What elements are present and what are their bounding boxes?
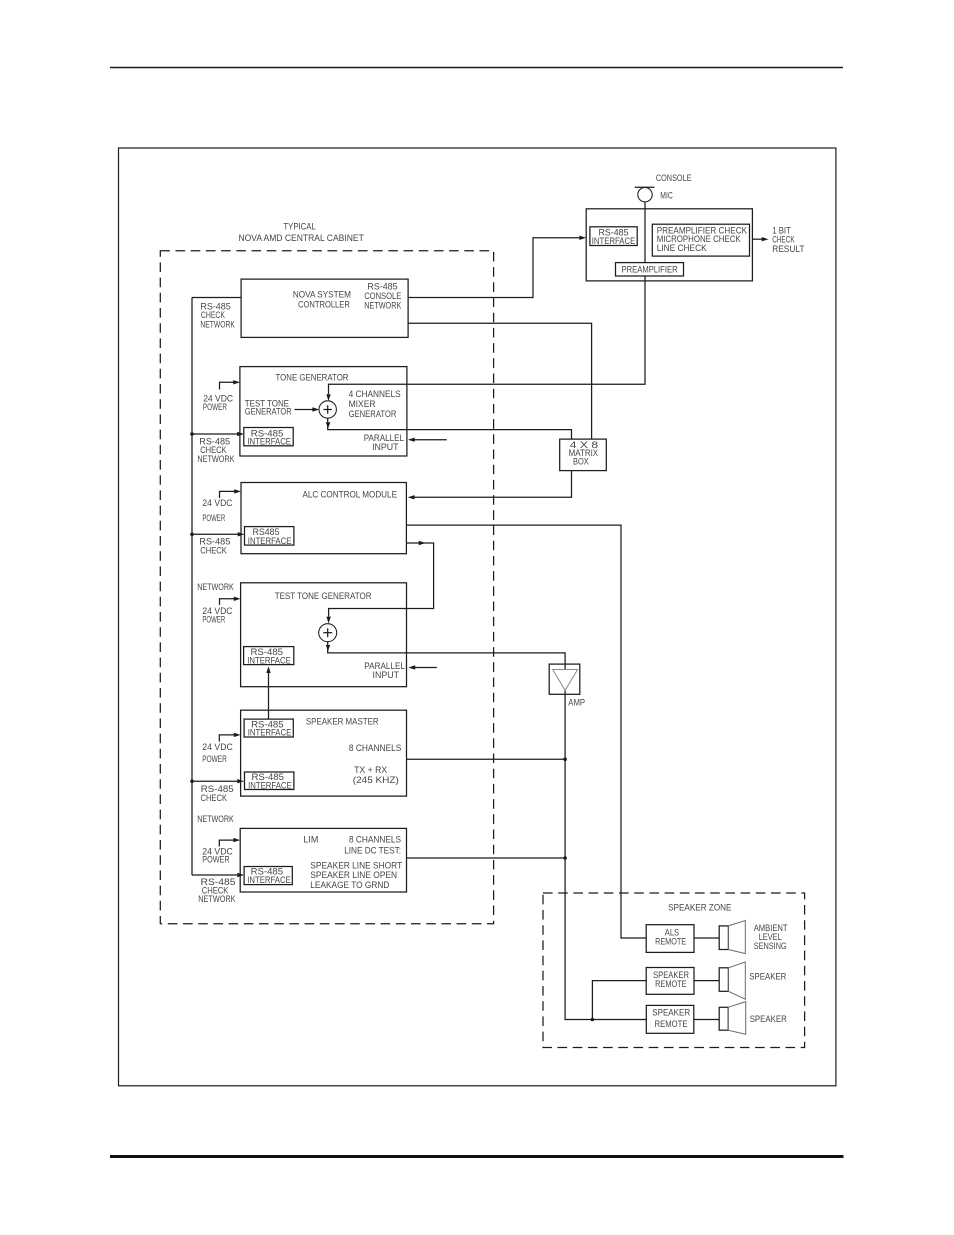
label RS-485 check network at ALC — [197, 537, 234, 592]
svg-text:INPUT: INPUT — [372, 442, 399, 452]
wire ALC to test tone generator mixer — [326, 541, 433, 624]
label RS-485 check network at LIM — [198, 877, 236, 904]
label 24 VDC power LIM — [202, 847, 233, 865]
wire LIM output — [407, 857, 566, 859]
svg-text:MIC: MIC — [660, 191, 673, 201]
wire speaker remote 1 to speaker — [694, 980, 719, 982]
LIM RS-485 interface box — [244, 867, 292, 886]
wire amplifier output to speaker remotes — [565, 691, 646, 1020]
svg-text:PREAMPLIFIER: PREAMPLIFIER — [622, 265, 678, 275]
svg-text:INTERFACE: INTERFACE — [248, 536, 292, 546]
svg-text:24 VDC: 24 VDC — [202, 742, 233, 752]
svg-text:8 CHANNELS: 8 CHANNELS — [349, 834, 401, 844]
ALC control module box — [241, 483, 406, 554]
ambient level sensing speaker symbol — [719, 921, 745, 954]
svg-text:8 CHANNELS: 8 CHANNELS — [349, 743, 402, 753]
label ambient level sensing — [754, 923, 788, 951]
svg-text:TEST TONE GENERATOR: TEST TONE GENERATOR — [275, 591, 372, 601]
wire parallel input stub test tone generator — [408, 665, 437, 669]
svg-text:SPEAKER: SPEAKER — [749, 971, 786, 981]
speaker master upper RS-485 interface box — [244, 719, 293, 738]
svg-text:CONSOLE: CONSOLE — [656, 173, 692, 183]
svg-text:REMOTE: REMOTE — [655, 1019, 688, 1029]
svg-text:RS-485: RS-485 — [367, 282, 397, 292]
wire ALS remote to speaker — [694, 937, 719, 939]
wire 24 VDC power speaker master — [219, 733, 240, 742]
svg-text:TYPICAL: TYPICAL — [283, 222, 315, 232]
svg-text:RESULT: RESULT — [772, 244, 805, 254]
label 24 VDC power test tone generator — [202, 606, 232, 625]
svg-text:NETWORK: NETWORK — [364, 301, 402, 311]
console microphone symbol — [635, 173, 692, 202]
svg-text:SPEAKER: SPEAKER — [750, 1014, 787, 1024]
wire tone generator mixer output to matrix box — [326, 418, 572, 439]
junction dot LIM tap — [563, 856, 567, 860]
svg-text:CHECK: CHECK — [772, 234, 795, 244]
tone generator mixer summing node — [319, 401, 336, 418]
test tone RS-485 interface box — [244, 647, 294, 666]
svg-text:GENERATOR: GENERATOR — [349, 409, 397, 419]
svg-text:CONTROLLER: CONTROLLER — [298, 300, 350, 310]
ALS remote box — [646, 925, 694, 953]
junction dot speaker remote branch — [591, 1018, 595, 1022]
svg-text:NETWORK: NETWORK — [197, 814, 234, 824]
speaker master box — [241, 710, 407, 796]
speaker 1 symbol — [719, 962, 745, 999]
tone generator box — [240, 367, 407, 456]
label 24 VDC power speaker master — [202, 742, 233, 764]
svg-text:CHECK: CHECK — [200, 546, 227, 556]
svg-text:SPEAKER: SPEAKER — [652, 1008, 690, 1018]
wire 24 VDC power tone generator — [220, 380, 241, 389]
cabinet dashed enclosure TYPICAL NOVA AMD CENTRAL CABINET — [160, 222, 493, 924]
svg-text:LINE CHECK: LINE CHECK — [657, 243, 708, 253]
svg-text:TX + RX: TX + RX — [354, 765, 387, 775]
wire NOVA console network to preamplifier RS-485 interface — [408, 236, 586, 298]
wire ALC output to ALS remote — [406, 525, 646, 938]
svg-text:LINE DC TEST:: LINE DC TEST: — [344, 846, 401, 856]
label speaker 1 — [749, 971, 786, 981]
svg-text:MIXER: MIXER — [349, 399, 376, 409]
label RS-485 check network at tone generator — [197, 436, 235, 464]
svg-text:SPEAKER ZONE: SPEAKER ZONE — [668, 903, 731, 913]
svg-text:POWER: POWER — [202, 513, 225, 523]
svg-text:CHECK: CHECK — [201, 310, 226, 320]
svg-text:INTERFACE: INTERFACE — [248, 728, 292, 738]
wire test tone mixer output to amplifier — [326, 642, 565, 669]
speaker remote 2 box — [646, 1005, 694, 1033]
svg-text:4 CHANNELS: 4 CHANNELS — [349, 389, 401, 399]
svg-text:NETWORK: NETWORK — [197, 582, 234, 592]
wire bus to tone generator RS-485 interface — [190, 432, 244, 436]
wire speaker master TX RX output — [407, 758, 566, 760]
junction dot speaker master tap — [563, 757, 567, 761]
wire 24 VDC power LIM — [219, 838, 240, 847]
label RS-485 check network at speaker master — [197, 784, 234, 824]
svg-text:POWER: POWER — [203, 402, 227, 412]
test tone mixer summing node — [319, 624, 337, 642]
label 24 VDC power ALC — [202, 498, 232, 523]
speaker zone dashed enclosure — [543, 893, 805, 1048]
wire test tone RS-485 interface to speaker master interface — [266, 666, 270, 719]
svg-text:GENERATOR: GENERATOR — [245, 406, 292, 416]
LIM line monitor box — [240, 828, 406, 892]
wire speaker remote 2 to speaker — [694, 1019, 719, 1021]
svg-text:INTERFACE: INTERFACE — [247, 875, 291, 885]
preamplifier box — [616, 263, 684, 276]
label 24 VDC power tone generator — [203, 394, 234, 412]
speaker master lower RS-485 interface box — [245, 772, 294, 790]
wire matrix box output to ALC control module — [408, 471, 572, 500]
test tone generator box — [241, 583, 407, 687]
amplifier AMP box — [549, 664, 585, 707]
wire 24 VDC power test tone generator — [220, 597, 241, 605]
speaker 2 symbol — [719, 1002, 746, 1035]
svg-text:ALC CONTROL MODULE: ALC CONTROL MODULE — [303, 490, 398, 500]
wire bus to LIM RS-485 interface — [192, 873, 244, 877]
svg-text:SENSING: SENSING — [754, 941, 787, 951]
svg-text:INPUT: INPUT — [373, 670, 400, 680]
wire 1 bit check result arrow — [752, 237, 768, 241]
speaker remote 1 box — [646, 968, 694, 995]
label 1 bit check result — [772, 226, 805, 254]
wire NOVA second output to 4x8 matrix box — [408, 323, 591, 439]
tone generator RS-485 interface box — [244, 428, 293, 447]
svg-text:INTERFACE: INTERFACE — [247, 437, 291, 447]
wire console mic to tone generator mixer — [326, 202, 645, 401]
svg-text:NETWORK: NETWORK — [197, 454, 235, 464]
svg-text:LEAKAGE TO GRND: LEAKAGE TO GRND — [310, 880, 389, 890]
svg-text:SPEAKER LINE OPEN: SPEAKER LINE OPEN — [310, 870, 397, 880]
svg-text:NETWORK: NETWORK — [198, 894, 236, 904]
ALC RS485 interface box — [245, 527, 294, 546]
4x8 matrix box — [560, 439, 607, 471]
wire parallel input stub tone generator — [408, 438, 447, 442]
svg-text:INTERFACE: INTERFACE — [247, 655, 291, 665]
svg-text:REMOTE: REMOTE — [655, 937, 686, 947]
wire bus to ALC RS-485 interface — [190, 532, 244, 536]
svg-text:24 VDC: 24 VDC — [202, 498, 232, 508]
preamplifier check module box — [586, 209, 752, 281]
svg-text:BOX: BOX — [573, 456, 589, 466]
preamp RS-485 interface box — [590, 227, 637, 246]
label speaker 2 — [750, 1014, 787, 1024]
svg-text:LIM: LIM — [303, 834, 318, 844]
label RS-485 check network at NOVA — [200, 302, 235, 330]
svg-text:POWER: POWER — [202, 615, 225, 625]
svg-text:NETWORK: NETWORK — [200, 320, 235, 330]
svg-text:SPEAKER MASTER: SPEAKER MASTER — [306, 717, 379, 727]
svg-text:AMP: AMP — [568, 698, 585, 708]
svg-text:TONE GENERATOR: TONE GENERATOR — [276, 373, 349, 383]
preamplifier check line check box — [652, 224, 749, 256]
wire RS-485 check network bus — [191, 298, 193, 876]
wire 24 VDC power ALC — [220, 489, 242, 498]
svg-text:NOVA SYSTEM: NOVA SYSTEM — [293, 289, 351, 299]
svg-text:CHECK: CHECK — [201, 793, 228, 803]
svg-text:INTERFACE: INTERFACE — [592, 236, 636, 246]
NOVA system controller box — [241, 279, 408, 337]
svg-text:REMOTE: REMOTE — [655, 979, 687, 989]
svg-text:NOVA AMD CENTRAL CABINET: NOVA AMD CENTRAL CABINET — [239, 233, 365, 243]
wire bus to speaker master RS-485 interface — [190, 779, 244, 783]
svg-text:(245 KHZ): (245 KHZ) — [353, 775, 399, 785]
svg-text:POWER: POWER — [202, 854, 230, 864]
wire branch to speaker remote 1 — [592, 981, 646, 1020]
wire test tone generator label to mixer node — [295, 407, 320, 411]
wire bus to NOVA controller — [192, 297, 241, 299]
svg-text:POWER: POWER — [202, 754, 227, 764]
svg-text:INTERFACE: INTERFACE — [248, 780, 292, 790]
